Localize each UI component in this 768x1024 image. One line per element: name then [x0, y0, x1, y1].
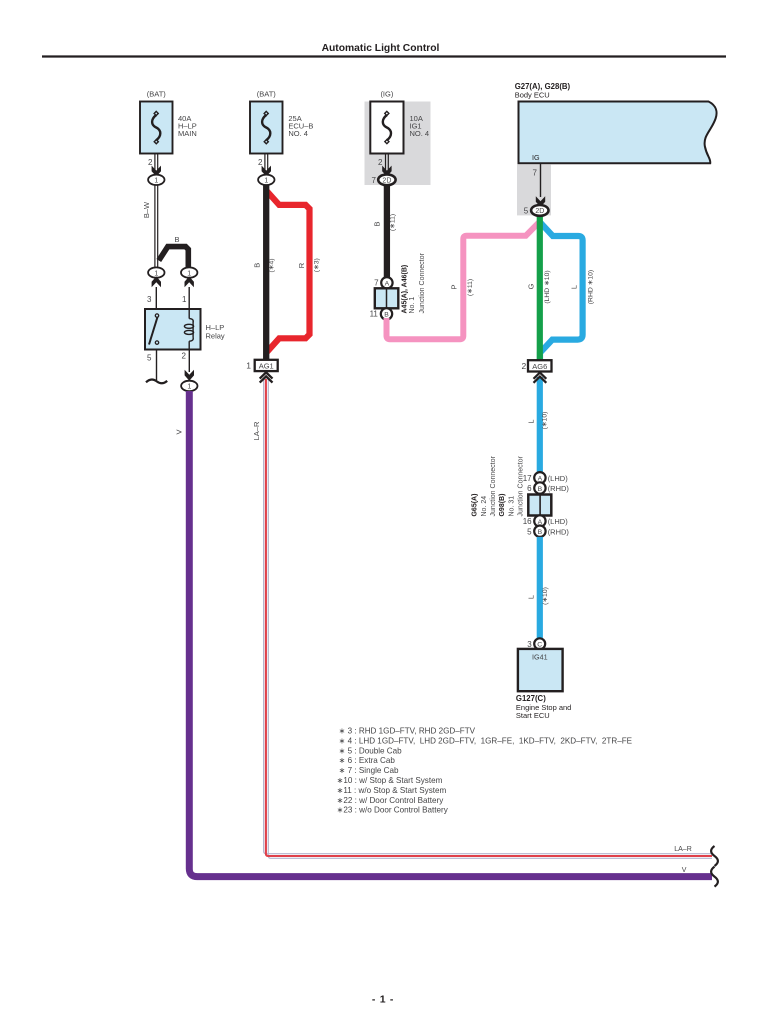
svg-text:∗11 : w/o Stop & Start System: ∗11 : w/o Stop & Start System [337, 786, 447, 795]
svg-text:(LHD): (LHD) [548, 517, 569, 526]
body ECU G27(A), G28(B) [515, 82, 717, 163]
ground squiggle [146, 379, 167, 383]
svg-text:∗ 3 : RHD 1GD–FTV, RHD 2GD–FTV: ∗ 3 : RHD 1GD–FTV, RHD 2GD–FTV [339, 727, 476, 736]
connector arrow up (left) [152, 276, 161, 287]
junction connector G65/G98 pin A (LHD 17) [523, 472, 569, 483]
svg-text:(∗10): (∗10) [541, 412, 548, 430]
connector oval 1 (pin2) [181, 381, 197, 391]
connector arrow up (right) [185, 276, 194, 287]
svg-text:∗ 4 : LHD 1GD–FTV, LHD 2GD–FT: ∗ 4 : LHD 1GD–FTV, LHD 2GD–FTV, 1GR–FE, … [339, 736, 633, 745]
svg-text:LA–R: LA–R [252, 421, 261, 440]
connector arrow down (pin2) [185, 370, 194, 381]
svg-text:NO. 4: NO. 4 [288, 129, 308, 138]
svg-text:∗22 : w/ Door Control Battery: ∗22 : w/ Door Control Battery [337, 796, 445, 805]
svg-text:7: 7 [374, 279, 379, 288]
fuse 25A ECU-B NO.4 [250, 90, 313, 154]
wire ECU pin 7 to 2D [533, 163, 541, 197]
connector arrow down (fuse1) [152, 166, 161, 177]
svg-text:B: B [253, 263, 262, 268]
svg-text:11: 11 [370, 310, 379, 319]
svg-text:Junction Connector: Junction Connector [419, 253, 426, 314]
ECU G127(C) Engine Stop and Start ECU [516, 649, 571, 720]
svg-text:(LHD ∗10): (LHD ∗10) [544, 270, 551, 303]
fuse 40A H-LP MAIN [140, 90, 197, 154]
wire L blue (loop right) [540, 222, 595, 360]
connector arrow down (fuse2) [262, 166, 271, 177]
svg-text:IG: IG [532, 153, 540, 162]
svg-text:3: 3 [527, 640, 532, 649]
svg-text:2: 2 [148, 158, 153, 167]
svg-text:IG41: IG41 [532, 653, 548, 662]
svg-text:R: R [297, 262, 306, 268]
wire P pink [387, 222, 540, 339]
svg-text:1: 1 [187, 384, 191, 391]
relay switch contact [149, 314, 159, 345]
wire fuse1 to connector (white) [148, 154, 158, 175]
junction connector G65/G98 pin B (RHD 6) [527, 482, 569, 493]
svg-text:1: 1 [187, 270, 191, 277]
connector arrow down (fuse IG) [382, 166, 391, 177]
junction connector G65/G98 pin A (LHD 16) [523, 515, 569, 526]
wire relay pin 5 to ground [147, 350, 156, 381]
relay H-LP Relay [145, 309, 225, 350]
svg-text:V: V [175, 429, 184, 434]
svg-text:(LHD): (LHD) [548, 474, 569, 483]
svg-text:B–W: B–W [142, 201, 151, 218]
svg-text:(∗11): (∗11) [467, 279, 474, 296]
svg-text:1: 1 [154, 178, 158, 185]
svg-text:2: 2 [378, 158, 383, 167]
wire relay pin 2 down [182, 350, 190, 373]
wire break LA-R [711, 846, 718, 866]
svg-text:G127(C): G127(C) [516, 694, 546, 703]
chevron AG6 [534, 373, 547, 383]
svg-text:Automatic Light Control: Automatic Light Control [322, 43, 440, 54]
wire fuse IG to 2D [378, 154, 388, 175]
svg-text:L: L [527, 595, 536, 599]
connector AG6 [521, 360, 551, 371]
svg-text:B: B [384, 312, 389, 319]
chevron AG1 [260, 372, 273, 382]
svg-text:∗10 : w/ Stop & Start System: ∗10 : w/ Stop & Start System [337, 776, 443, 785]
connector pin C (G127) [527, 638, 545, 649]
svg-text:3: 3 [147, 295, 152, 304]
svg-text:(RHD): (RHD) [548, 527, 570, 536]
svg-text:16: 16 [523, 517, 532, 526]
wire B jog [159, 235, 189, 267]
svg-text:2: 2 [182, 352, 187, 361]
svg-text:MAIN: MAIN [178, 129, 197, 138]
svg-text:(∗4): (∗4) [268, 258, 275, 272]
svg-text:(RHD): (RHD) [548, 484, 570, 493]
connector AG1 [246, 360, 277, 371]
svg-text:5: 5 [147, 354, 152, 363]
wire to relay pin 3 [147, 287, 156, 309]
svg-text:1: 1 [182, 295, 187, 304]
svg-text:No. 1: No. 1 [409, 297, 416, 314]
wire fuse2 to connector [258, 154, 268, 175]
wire B thick (IG to junction) [373, 185, 397, 277]
wire LA-R [252, 379, 712, 858]
svg-text:1: 1 [264, 178, 268, 185]
svg-text:B: B [174, 235, 179, 244]
junction connector G65/G98 body [472, 456, 552, 517]
svg-text:AG1: AG1 [259, 362, 274, 371]
svg-text:Junction Connector: Junction Connector [490, 456, 497, 517]
wire B thick (fuse2 to AG1) [253, 185, 276, 360]
svg-text:- 1 -: - 1 - [372, 994, 394, 1006]
svg-text:5: 5 [524, 206, 529, 215]
svg-text:(BAT): (BAT) [257, 90, 277, 99]
header rule [42, 55, 726, 57]
svg-text:A45(A), A46(B): A45(A), A46(B) [402, 265, 409, 314]
svg-text:Body ECU: Body ECU [515, 91, 550, 100]
svg-text:C: C [537, 642, 542, 649]
wire R red loop [267, 191, 320, 352]
wire to relay pin 1 [182, 287, 189, 309]
connector oval 2D (fuse IG) [372, 174, 396, 185]
svg-text:A: A [385, 281, 390, 288]
junction connector A45/A46 body [375, 253, 426, 314]
svg-text:(BAT): (BAT) [147, 90, 167, 99]
connector oval 1 (left, relay feed) [148, 267, 164, 277]
svg-text:7: 7 [533, 169, 538, 178]
svg-text:2D: 2D [535, 208, 544, 215]
connector oval 2D (ECU) [524, 205, 549, 216]
svg-text:5: 5 [527, 527, 532, 536]
svg-text:P: P [450, 284, 459, 289]
svg-text:2: 2 [521, 361, 526, 371]
svg-text:2: 2 [258, 158, 263, 167]
svg-text:7: 7 [372, 176, 377, 185]
svg-text:6: 6 [527, 484, 532, 493]
svg-text:∗ 6 : Extra Cab: ∗ 6 : Extra Cab [339, 756, 396, 765]
svg-text:Start ECU: Start ECU [516, 711, 550, 720]
svg-text:(∗3): (∗3) [313, 258, 320, 272]
svg-text:LA–R: LA–R [674, 846, 692, 853]
wire break V [711, 867, 718, 887]
svg-text:No. 31: No. 31 [508, 496, 515, 517]
svg-text:1: 1 [154, 270, 158, 277]
svg-text:G: G [527, 283, 536, 289]
connector oval 1 (right, relay feed) [181, 267, 197, 277]
wire V purple [175, 391, 712, 877]
svg-text:L: L [527, 419, 536, 423]
svg-text:G65(A): G65(A) [472, 494, 479, 517]
connector arrow down (ECU) [536, 196, 545, 207]
fuse 10A IG1 NO.4 [370, 90, 429, 154]
svg-text:(IG): (IG) [380, 90, 393, 99]
svg-text:∗ 5 : Double Cab: ∗ 5 : Double Cab [339, 746, 403, 755]
junction connector G65/G98 pin B (RHD 5) [527, 526, 569, 537]
svg-text:L: L [570, 285, 579, 289]
IG circuit gray background [365, 102, 431, 186]
connector oval 1 (fuse2) [258, 175, 274, 185]
svg-text:(RHD ∗10): (RHD ∗10) [588, 270, 595, 304]
svg-text:V: V [682, 867, 687, 874]
svg-text:2D: 2D [382, 178, 391, 185]
svg-text:(∗11): (∗11) [389, 214, 396, 231]
svg-text:B: B [538, 529, 543, 536]
svg-text:Junction Connector: Junction Connector [518, 456, 525, 517]
svg-text:B: B [538, 486, 543, 493]
relay coil [184, 309, 193, 350]
svg-text:No. 24: No. 24 [481, 496, 488, 517]
junction connector A45/A46 pin A [374, 277, 392, 288]
svg-text:AG6: AG6 [532, 362, 547, 371]
svg-text:∗ 7 : Single Cab: ∗ 7 : Single Cab [339, 766, 399, 775]
ECU pin gray background [517, 164, 551, 215]
svg-text:NO. 4: NO. 4 [410, 129, 430, 138]
wire B-W [142, 185, 158, 268]
wire L blue (AG6 to junction) [527, 377, 549, 473]
svg-text:Relay: Relay [206, 332, 225, 341]
junction connector A45/A46 pin B [370, 308, 393, 319]
svg-text:(∗10): (∗10) [542, 587, 549, 605]
wire L blue (junction to G127) [527, 537, 550, 639]
connector oval 1 (fuse1) [148, 175, 164, 185]
svg-text:B: B [373, 221, 382, 226]
svg-text:G98(B): G98(B) [499, 494, 506, 517]
svg-text:∗23 : w/o Door Control Battery: ∗23 : w/o Door Control Battery [337, 806, 449, 815]
notes legend [337, 727, 633, 815]
svg-text:1: 1 [246, 361, 251, 371]
wire G green [527, 216, 552, 360]
